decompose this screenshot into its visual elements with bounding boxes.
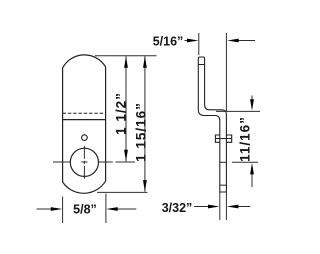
svg-text:11/16”: 11/16”: [238, 116, 253, 162]
svg-text:3/32”: 3/32”: [162, 201, 193, 215]
svg-text:1 1/2”: 1 1/2”: [114, 92, 129, 135]
svg-text:5/8”: 5/8”: [73, 203, 97, 217]
svg-text:5/16”: 5/16”: [153, 35, 184, 49]
svg-text:1 15/16”: 1 15/16”: [134, 102, 149, 162]
